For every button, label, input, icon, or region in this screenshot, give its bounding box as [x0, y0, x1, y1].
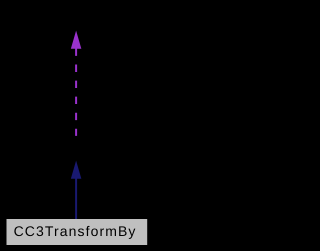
svg-text:CC3TransformBy: CC3TransformBy [14, 223, 136, 239]
usage arrow (dashed, darkorchid) pointing to invisible upper node [71, 31, 82, 136]
node CC3TransformBy [7, 219, 148, 245]
inheritance arrow (solid, midnightblue) from node CC3TransformBy [71, 161, 82, 220]
